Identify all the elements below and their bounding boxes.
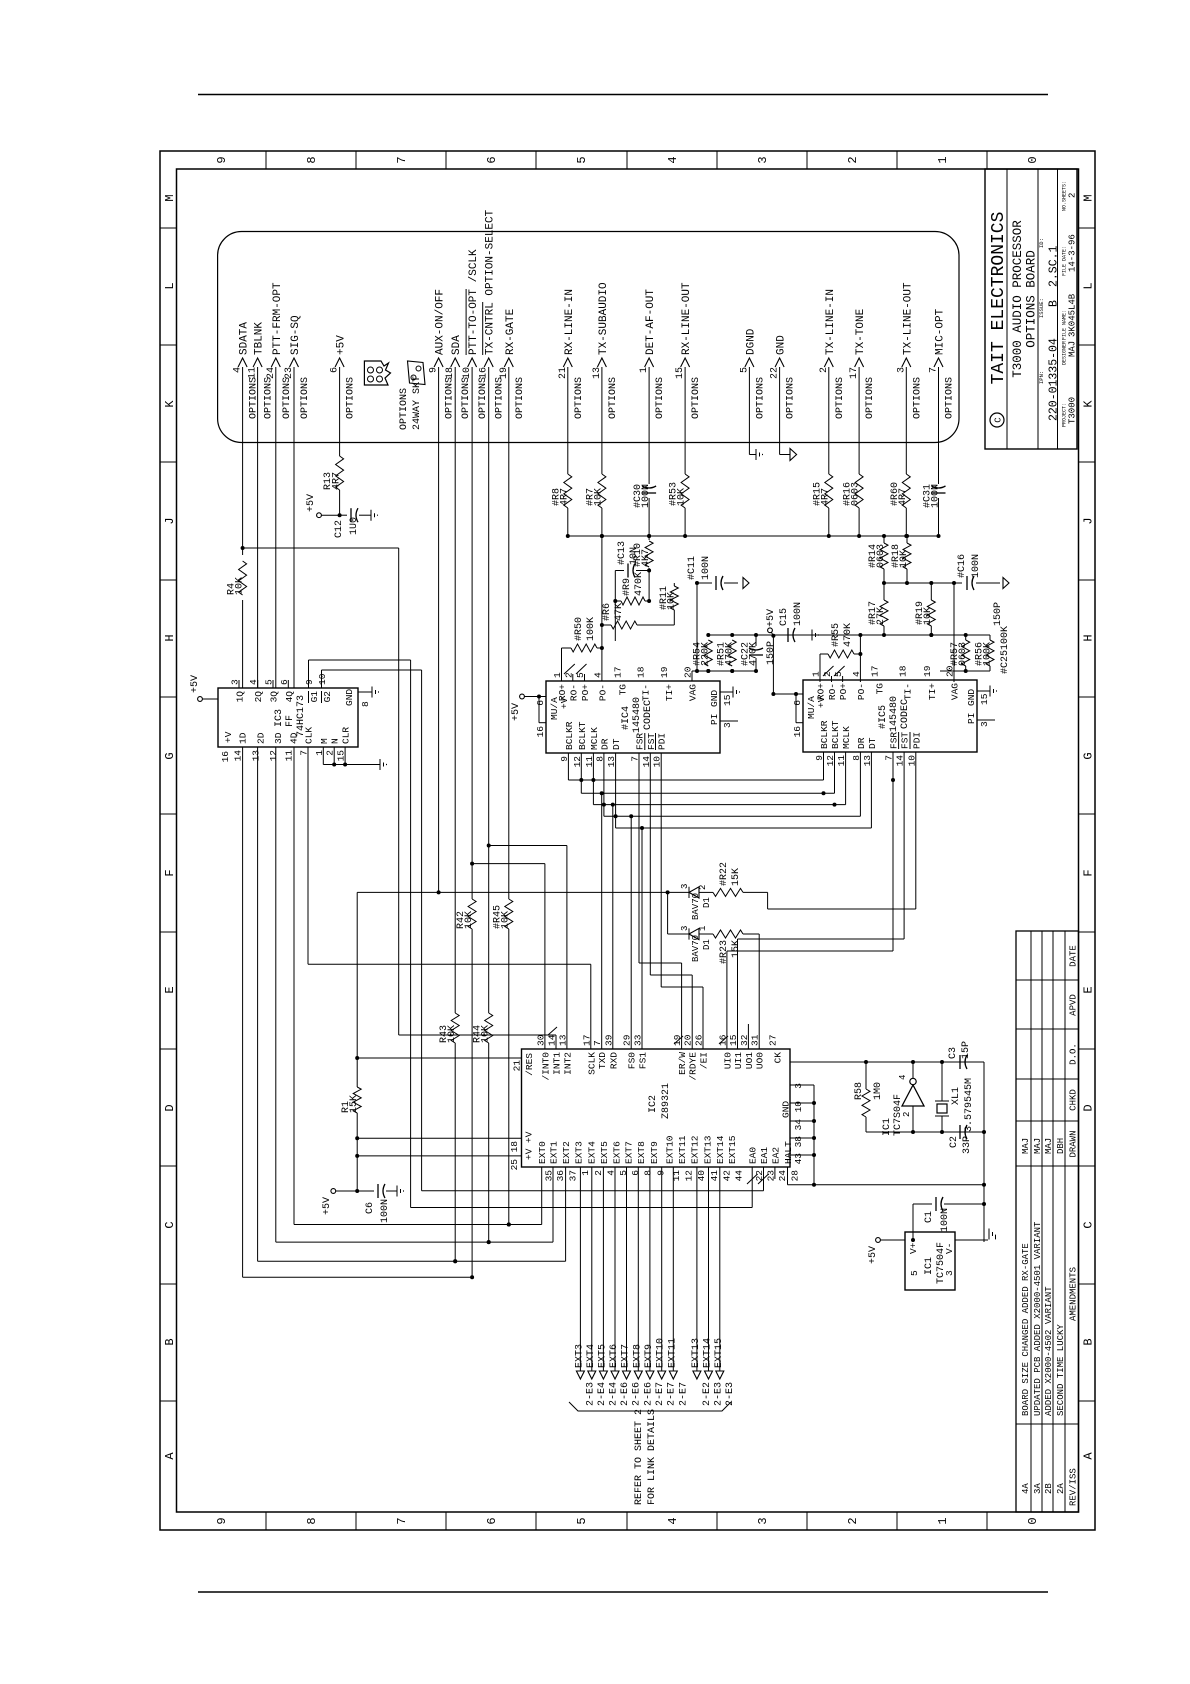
wire TBLNK [257,367,259,688]
svg-text:+V: +V [223,731,234,743]
svg-text:EXT5: EXT5 [599,1141,610,1164]
svg-text:FSR: FSR [635,733,646,750]
svg-text:10K: 10K [464,911,475,929]
svg-text:C15: C15 [779,608,790,626]
svg-text:7: 7 [630,756,641,762]
svg-text:27: 27 [768,1035,779,1046]
resistor R16 [855,474,863,508]
svg-text:EA1: EA1 [759,1147,770,1164]
svg-text:0603: 0603 [958,642,969,666]
svg-text:EA0: EA0 [748,1147,759,1164]
wire R10 row [648,568,650,601]
svg-text:3: 3 [793,1083,804,1089]
svg-text:MIC-OPT: MIC-OPT [935,308,947,355]
capacitor C16 [966,576,968,590]
svg-text:A: A [163,1452,177,1460]
junction TXCNTRL-PTTFRM [487,1240,491,1244]
svg-text:9: 9 [215,156,229,163]
wire IC2 +V18 [357,1155,521,1157]
svg-text:DRAWN: DRAWN [1069,1130,1079,1157]
crystal XL1 [941,1116,943,1132]
svg-text:19: 19 [659,666,670,678]
svg-text:4D: 4D [289,732,300,744]
svg-text:#C11: #C11 [687,556,698,580]
link mark UI0 [719,1036,728,1044]
wire MIC-OPT [938,498,940,536]
svg-text:#IC5: #IC5 [878,705,889,729]
svg-text:UI0: UI0 [722,1052,733,1069]
capacitor C15 [773,634,784,636]
svg-text:16: 16 [220,751,231,763]
options pin 11 label TBLNK [253,358,262,367]
svg-text:16: 16 [535,726,546,738]
resistor R50 [561,648,563,681]
svg-text:J: J [163,517,177,524]
wire TX-LINE-IN [828,508,830,529]
svg-text:J: J [1082,517,1096,524]
svg-text:TC7504F: TC7504F [936,1242,947,1284]
svg-text:OPTIONS: OPTIONS [945,377,956,419]
svg-text:100N: 100N [940,1208,951,1232]
ext bracket [569,1402,731,1411]
svg-text:K: K [1082,400,1096,408]
svg-text:15: 15 [979,693,990,705]
resistor R13 [336,456,344,490]
svg-text:#R22: #R22 [719,862,730,886]
svg-text:AUX-ON/OFF: AUX-ON/OFF [435,289,447,355]
svg-text:2-E6: 2-E6 [620,1382,631,1406]
svg-text:12: 12 [825,755,836,767]
svg-text:PI: PI [966,713,977,724]
svg-text:1: 1 [936,1517,950,1524]
wire IC5 PDI link [915,752,917,909]
svg-text:13: 13 [606,756,617,768]
svg-text:2A: 2A [1056,1483,1066,1494]
resistor R53 [681,474,689,508]
svg-text:A: A [1082,1452,1096,1460]
svg-text:+5V: +5V [190,675,201,693]
svg-text:#R50: #R50 [574,617,585,641]
svg-text:G1: G1 [309,691,320,703]
svg-text:K: K [163,400,177,408]
wire UO1 stub [747,1024,749,1049]
svg-text:EXT13: EXT13 [702,1135,713,1164]
options 24way socket symbol [364,361,390,385]
svg-text:UPDATED PCB ADDED X2000-4501 V: UPDATED PCB ADDED X2000-4501 VARIANT [1033,1221,1043,1416]
svg-text:TX-SUBAUDIO: TX-SUBAUDIO [598,282,610,355]
svg-text:OPTIONS: OPTIONS [608,377,619,419]
wire RES rail [356,1113,358,1191]
svg-text:43: 43 [793,1153,804,1165]
svg-text:PO+: PO+ [838,683,849,700]
svg-text:PI: PI [709,714,720,725]
wire 3Q up [272,680,274,688]
svg-text:1: 1 [639,367,650,373]
options connector outline [218,232,959,443]
svg-text:M: M [163,194,177,201]
svg-text:10K: 10K [677,488,688,506]
wire TX-LINE-OUT [905,508,907,536]
svg-text:VAG: VAG [950,683,961,700]
svg-text:4Q: 4Q [284,691,295,703]
options pin 16 label TX-CNTRL OPTION-SELECT [484,358,493,367]
svg-text:4: 4 [666,156,680,163]
title block frame [985,169,1077,449]
svg-text:150P: 150P [766,641,777,665]
svg-text:V+: V+ [908,1242,919,1254]
svg-text:C3: C3 [948,1047,959,1059]
options pin 23 label SIG-SQ [290,358,299,367]
ic IC2 Z89321 box [522,1049,791,1167]
svg-text:EXT9: EXT9 [649,1141,660,1164]
svg-text:FF: FF [285,715,296,727]
svg-text:+V: +V [524,1131,535,1143]
svg-text:DT: DT [867,737,878,749]
resistor R54 [704,640,712,666]
capacitor C30 [642,492,656,494]
svg-text:N: N [330,738,341,744]
svg-text:3K045L4B: 3K045L4B [1068,293,1078,337]
svg-text:10K: 10K [666,592,677,610]
svg-text:3D: 3D [273,732,284,744]
svg-text:GND: GND [781,1101,792,1118]
svg-text:DBH: DBH [1056,1138,1066,1154]
svg-text:4R7: 4R7 [821,488,832,506]
svg-text:33P: 33P [962,1136,973,1154]
svg-text:7: 7 [395,156,409,163]
svg-text:2: 2 [846,156,860,163]
wire SDATA net [242,747,244,1277]
svg-text:#R23: #R23 [719,940,730,964]
wire PTT-TO-OPT [471,929,473,1277]
wire IC4 FST link [649,753,651,975]
svg-text:+5V: +5V [336,335,348,355]
svg-text:6: 6 [630,1170,641,1176]
svg-text:9: 9 [429,367,440,373]
svg-text:11: 11 [671,1170,682,1182]
ic IC3 mnclr tie [322,747,324,765]
svg-text:19: 19 [499,367,510,379]
svg-text:6: 6 [485,1517,499,1524]
svg-text:6: 6 [792,700,803,706]
svg-text:OPTIONS: OPTIONS [755,377,766,419]
svg-text:2: 2 [698,885,708,890]
svg-text:PDI: PDI [911,732,922,749]
svg-text:BCLKR: BCLKR [564,721,575,750]
svg-text:2-E4: 2-E4 [597,1382,608,1406]
svg-text:470K: 470K [634,572,645,596]
svg-text:PTT-TO-OPT /SCLK: PTT-TO-OPT /SCLK [468,249,480,355]
svg-text:16: 16 [479,367,490,379]
earth arrow C16 [1003,578,1009,589]
junction RXGATE-SIGSQ [507,1223,511,1227]
resistor R22 [713,888,743,896]
wire GND22 [779,367,781,455]
wire tap to INT0 [472,863,545,865]
wire RXD link [612,805,614,1049]
svg-text:IC1: IC1 [882,1118,893,1136]
svg-text:11: 11 [284,750,295,762]
svg-text:UO0: UO0 [755,1052,766,1069]
svg-text:1: 1 [698,926,708,931]
svg-text:18: 18 [898,665,909,677]
power +5V cluster [768,628,773,633]
svg-text:+V: +V [524,1148,535,1160]
svg-text:GND: GND [344,689,355,706]
svg-text:EXT15: EXT15 [714,1338,725,1368]
options pin 19 label RX-GATE [504,358,513,367]
resistor R55 [819,654,821,682]
svg-text:SCLK: SCLK [586,1052,597,1075]
svg-text:18: 18 [445,367,456,379]
resistor R8 [564,474,572,508]
svg-text:8: 8 [851,755,862,761]
wire rail57 [940,670,990,672]
power +5V C12 [317,513,322,518]
wire D1b to R23 [699,933,713,935]
svg-text:100N: 100N [793,602,804,626]
resistor R58 [865,1117,867,1132]
svg-text:42: 42 [721,1170,732,1182]
svg-text:B: B [1082,1338,1096,1345]
svg-text:2-E4: 2-E4 [608,1382,619,1406]
options pin 18 label SDA [451,358,460,367]
wire IC5 VAG [953,583,955,682]
svg-text:EXT15: EXT15 [727,1135,738,1164]
wire PO+b stub [842,676,844,682]
svg-text:BCLKR: BCLKR [819,720,830,749]
resistor R57 [962,640,970,666]
svg-text:4R7: 4R7 [331,472,342,490]
wire SDATA [242,600,244,688]
svg-text:100N: 100N [641,484,652,508]
wire +5V feed [339,490,341,512]
svg-text:100K: 100K [1000,626,1011,650]
svg-text:12: 12 [684,1170,695,1182]
svg-text:OPTIONS: OPTIONS [655,377,666,419]
svg-text:+5V: +5V [322,1197,333,1215]
wire R9C13 top [614,571,616,642]
svg-text:5: 5 [909,1270,920,1276]
svg-text:+5V: +5V [766,609,777,627]
svg-text:10K: 10K [447,1025,458,1043]
svg-text:150P: 150P [993,602,1004,626]
svg-text:M: M [1082,194,1096,201]
svg-text:EXT1: EXT1 [549,1141,560,1164]
power +5V IC4 [520,694,525,699]
copyright symbol [990,413,1004,427]
ground DGND [755,449,757,460]
svg-text:#R6: #R6 [602,603,613,621]
svg-text:L: L [163,282,177,289]
svg-text:17: 17 [870,666,881,677]
wire CK pin [790,1061,984,1063]
resistor R45 [505,899,513,929]
svg-text:BCLKT: BCLKT [577,721,588,750]
svg-text:TX-LINE-OUT: TX-LINE-OUT [902,282,914,355]
svg-text:EA2: EA2 [770,1147,781,1164]
svg-text:MCLK: MCLK [841,726,852,749]
svg-text:11: 11 [836,755,847,767]
ic IC3 74HC173 box [218,688,358,747]
svg-text:100K: 100K [983,642,994,666]
svg-text:OPTIONS: OPTIONS [346,377,357,419]
ground C15 [811,630,813,641]
svg-text:SECOND TIME LUCKY: SECOND TIME LUCKY [1056,1324,1066,1416]
wire RX-LINE-OUT [684,508,686,536]
resistor R1 [353,1087,361,1113]
options pin 21 label RX-LINE-IN [563,358,572,367]
svg-text:TXD: TXD [597,1052,608,1069]
svg-text:PO-: PO- [597,684,608,701]
svg-text:3: 3 [680,926,690,931]
svg-text:EXT4: EXT4 [586,1141,597,1164]
svg-text:5: 5 [739,367,750,373]
wire IC4 PDI link [660,753,662,987]
svg-text:TG: TG [875,683,886,695]
svg-text:PDI: PDI [657,733,668,750]
svg-text:5: 5 [575,1517,589,1524]
svg-text:44: 44 [734,1170,745,1182]
svg-text:OPTIONS: OPTIONS [865,377,876,419]
svg-text:3: 3 [756,1517,770,1524]
capacitor C11 [697,582,712,584]
svg-text:IC1: IC1 [924,1257,935,1275]
svg-text:10K: 10K [899,550,910,568]
capacitor C6 [377,1184,379,1198]
svg-text:13: 13 [250,750,261,762]
svg-text:13: 13 [592,367,603,379]
svg-text:H: H [163,634,177,641]
options pin 13 label TX-SUBAUDIO [597,358,606,367]
title block row lines [1006,169,1008,449]
wire PO- stub [601,536,603,681]
resistor R18 [903,543,911,569]
svg-text:8: 8 [643,1170,654,1176]
svg-text:2-E6: 2-E6 [632,1382,643,1406]
wire AUX-ON/OFF [438,367,440,892]
svg-text:T3000 AUDIO PROCESSOR: T3000 AUDIO PROCESSOR [1011,220,1025,378]
wire tap to INT2 [489,845,567,847]
svg-text:#C16: #C16 [957,554,968,578]
svg-text:24: 24 [266,367,277,379]
capacitor C2 [950,1131,956,1133]
ext connector stubs [579,1167,581,1371]
svg-text:38: 38 [793,1136,804,1148]
svg-text:24: 24 [777,1170,788,1182]
svg-text:/INT0: /INT0 [540,1052,551,1081]
svg-text:8: 8 [360,701,371,707]
wire PTT-FRM net [275,747,277,1242]
svg-text:E: E [1082,986,1096,993]
amendments column lines [1016,1423,1079,1425]
svg-text:H: H [1082,634,1096,641]
wire IC4 pin stubs [567,753,569,780]
svg-text:INT2: INT2 [562,1052,573,1075]
svg-text:9: 9 [814,755,825,761]
options pin 2 label TX-LINE-IN [824,358,833,367]
amendments row lines [1030,931,1032,1512]
svg-text:4: 4 [233,367,244,373]
resistor R14 [880,543,888,569]
svg-text:D.O.: D.O. [1069,1043,1079,1065]
options pin 10 label PTT-TO-OPT /SCLK [468,358,477,367]
svg-text:2-E7: 2-E7 [655,1382,666,1406]
svg-text:470K: 470K [749,642,760,666]
svg-text:D: D [1082,1104,1096,1111]
wire rail B [884,582,962,584]
svg-text:14: 14 [895,755,906,767]
svg-text:EXT6: EXT6 [609,1344,620,1368]
svg-text:B: B [163,1338,177,1345]
svg-text:+5V: +5V [868,1246,879,1264]
svg-text:/RDYE: /RDYE [688,1052,699,1081]
svg-text:BAV70: BAV70 [691,893,701,920]
link marks IC5 [823,666,834,676]
wire IC4 FSR link [638,753,640,963]
svg-text:CK: CK [773,1052,784,1064]
resistor R23 [713,930,743,938]
svg-text:C2: C2 [949,1136,960,1148]
svg-text:0603: 0603 [876,544,887,568]
capacitor C3 [950,1061,956,1063]
svg-text:F: F [1082,869,1096,876]
options pin 9 label AUX-ON/OFF [434,358,443,367]
svg-text:3: 3 [944,1270,955,1276]
svg-text:OPTIONS: OPTIONS [912,377,923,419]
svg-text:BAV70: BAV70 [691,935,701,962]
junction C12 [338,513,342,517]
svg-text:3Q: 3Q [269,691,280,703]
svg-text:TI-: TI- [903,683,914,700]
svg-text:1: 1 [936,156,950,163]
svg-text:XL1: XL1 [951,1087,962,1105]
ground IC1 [984,1239,988,1241]
wire RO- stub [572,674,574,681]
svg-text:10: 10 [906,755,917,767]
svg-text:15K: 15K [731,868,742,886]
wire PO+ stub [584,674,586,681]
svg-text:3: 3 [722,722,733,728]
svg-text:EXT12: EXT12 [690,1135,701,1164]
svg-text:TX-CNTRL OPTION-SELECT: TX-CNTRL OPTION-SELECT [485,209,497,355]
svg-text:OPTIONS: OPTIONS [835,377,846,419]
svg-text:1D: 1D [237,732,248,744]
resistor R4 [239,561,247,595]
svg-text:8: 8 [305,156,319,163]
svg-text:3: 3 [756,156,770,163]
svg-text:TBLNK: TBLNK [254,322,266,355]
wire rail spur TX-LINE-IN [828,529,830,536]
resistor R60 [902,474,910,508]
svg-text:REFER TO SHEET 2: REFER TO SHEET 2 [634,1409,645,1505]
svg-text:C: C [994,417,1004,423]
svg-text:18: 18 [636,666,647,678]
svg-text:7: 7 [395,1517,409,1524]
svg-text:100N: 100N [701,556,712,580]
svg-text:13: 13 [862,755,873,767]
svg-text:SIG-SQ: SIG-SQ [290,315,302,355]
options pin 15 label RX-LINE-OUT [681,358,690,367]
svg-text:41: 41 [709,1170,720,1182]
svg-text:2: 2 [846,1517,860,1524]
resistor R6 [611,621,637,629]
svg-text:4K7: 4K7 [641,549,652,567]
wire TX-SUBAUDIO [601,508,603,536]
ea link marks [747,1174,758,1184]
svg-text:EXT11: EXT11 [677,1135,688,1164]
wire 4Q up [287,680,289,688]
